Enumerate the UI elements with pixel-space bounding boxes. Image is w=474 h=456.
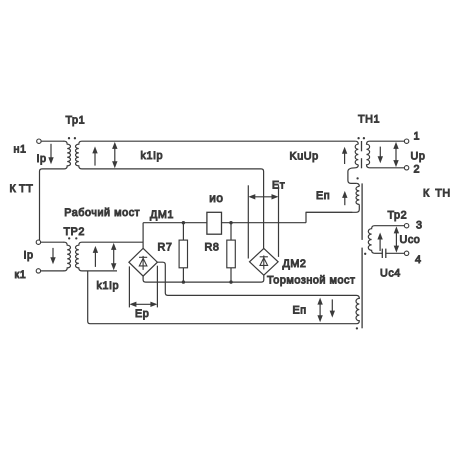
wire н1 to Тр1 primary [41, 140, 64, 142]
arrow Iр (ТР2 primary) [50, 248, 55, 264]
polarity dot Еп bottom [356, 327, 358, 329]
svg-text:Up: Up [411, 150, 426, 162]
wire к1 to ТР2 primary [41, 270, 65, 272]
ТН1 primary bottom lead [348, 165, 358, 184]
wire terminal to ТР2 primary [41, 241, 65, 243]
transformer ТР2 primary winding [64, 242, 71, 271]
wire R8 top [230, 223, 232, 240]
svg-text:ТН1: ТН1 [358, 113, 380, 125]
svg-text:R7: R7 [158, 242, 173, 254]
capacitor Uc4 plate right [385, 249, 387, 258]
polarity dot Тр1 secondary [74, 137, 76, 139]
wire R8 bottom [230, 268, 232, 282]
svg-text:KuUp: KuUp [290, 150, 319, 162]
svg-text:k1Iр: k1Iр [141, 150, 164, 162]
wire Тр2 top to terminal 3 [375, 225, 404, 227]
Еп middle bottom lead [306, 204, 359, 212]
terminal н1 [37, 139, 41, 143]
wire ТН1 secondary bottom to terminal 2 [370, 167, 404, 169]
double arrow Uco [394, 226, 399, 252]
svg-text:4: 4 [415, 254, 422, 266]
svg-text:Еп: Еп [293, 305, 307, 317]
diode inside ДМ2 [260, 255, 268, 269]
wire Тр1 secondary bottom to ДМ2 top [83, 169, 264, 249]
svg-text:2: 2 [414, 163, 421, 175]
svg-text:Ет: Ет [272, 180, 285, 192]
capacitor Uc4 plate left [381, 249, 383, 258]
resistor R7 [179, 240, 187, 268]
svg-text:к1: к1 [15, 269, 27, 281]
svg-text:Uc4: Uc4 [380, 268, 401, 280]
bridge ДМ1 diamond [129, 248, 158, 276]
polarity dot ТР2 secondary [75, 237, 77, 239]
double arrow k1Iр (ТР2) [111, 243, 116, 270]
bridge ДМ2 diamond [250, 248, 279, 275]
svg-text:н1: н1 [14, 144, 27, 156]
polarity dot ТР2 primary [68, 237, 70, 239]
svg-text:Iр: Iр [24, 250, 34, 262]
arrow KuUp up [342, 147, 347, 164]
wire bottom bus [143, 275, 264, 282]
transformer Тр1 primary winding [42, 141, 71, 169]
svg-text:Тормозной мост: Тормозной мост [267, 274, 356, 286]
winding Тр2 right [368, 226, 375, 254]
winding Еп bottom [354, 295, 360, 323]
node R8 top [229, 221, 232, 224]
polarity dot ТН1 primary [357, 137, 359, 139]
transformer Тр1 secondary winding [76, 141, 83, 169]
double arrow k1Iр (Тр1) [112, 142, 117, 168]
polarity dot Тр2 right [364, 253, 366, 255]
wire top bus left [143, 222, 207, 224]
arrow Еп bottom down [330, 299, 335, 317]
polarity dot ТН1 secondary [363, 137, 365, 139]
wire ТР2 secondary top to ДМ1 [83, 241, 144, 243]
wire Тр2 bottom to capacitor [375, 252, 382, 254]
node R7 top [182, 221, 185, 224]
dimension line Ер right [156, 266, 158, 308]
core column upper segment [361, 183, 363, 240]
terminal ТР2 top [36, 240, 40, 244]
svg-text:К ТТ: К ТТ [10, 183, 34, 195]
svg-text:Тр2: Тр2 [388, 210, 408, 222]
double arrow Ер [129, 302, 157, 307]
wire ТР2 bottom down to bottom bus [88, 271, 354, 324]
terminal 4 [404, 251, 408, 255]
wire ДМ1 top corner to bus [142, 223, 144, 249]
dimension line Ер left [128, 266, 130, 307]
transformer ТН1 primary winding [355, 144, 358, 165]
wire capacitor to terminal 4 [386, 252, 405, 254]
svg-text:Iр: Iр [37, 153, 47, 165]
dimension line Ет left [247, 185, 249, 258]
ТН1 primary top corner [355, 141, 358, 144]
double arrow Еп bottom [317, 298, 322, 323]
winding Еп middle [356, 186, 359, 204]
transformer ТР2 secondary winding [76, 242, 83, 271]
wire top bus right [222, 222, 307, 224]
svg-text:Ер: Ер [135, 308, 149, 320]
svg-text:1: 1 [414, 130, 421, 142]
polarity dot Тр1 primary [68, 137, 70, 139]
polarity dot Еп middle [356, 177, 358, 179]
svg-text:Рабочий мост: Рабочий мост [64, 207, 140, 219]
svg-text:ТР2: ТР2 [64, 226, 85, 238]
terminal 1 [404, 139, 408, 143]
svg-text:k1Iр: k1Iр [97, 280, 120, 292]
wire Тр1 primary bottom down to ТР2 [40, 169, 43, 240]
wire R7 top [182, 223, 184, 240]
wire R7 bottom [182, 268, 184, 282]
svg-text:3: 3 [416, 220, 423, 232]
arrow Еп middle up [342, 191, 347, 205]
resistor R8 [227, 240, 236, 268]
arrow Up down [378, 147, 383, 164]
core ТН1 dash top [361, 141, 363, 151]
wire ТН1 secondary top to terminal 1 [370, 140, 404, 142]
double arrow Up [393, 142, 398, 167]
wire Тр1 secondary top to ТН1 [83, 140, 356, 142]
svg-text:ДМ1: ДМ1 [150, 209, 174, 221]
transformer ТН1 secondary winding [367, 141, 371, 168]
arrow Тр2 right up [377, 233, 382, 252]
core column lower segment [361, 248, 363, 329]
svg-text:R8: R8 [205, 242, 220, 254]
svg-text:Uco: Uco [400, 234, 421, 246]
node R8 bottom [229, 280, 232, 283]
dimension line Ет right [278, 185, 280, 257]
svg-text:ДМ2: ДМ2 [283, 258, 307, 270]
terminal к1 [36, 269, 40, 273]
svg-text:ио: ио [209, 191, 223, 205]
core ТН1 dash bottom [361, 158, 363, 168]
wire bus step up [306, 212, 352, 222]
arrow Iр (primary current) [48, 144, 53, 164]
arrow k1Iр up (Тр1 secondary) [92, 146, 97, 165]
diode inside ДМ1 [139, 256, 147, 270]
wire ТР2 secondary bottom stub [83, 270, 118, 272]
terminal 2 [404, 166, 408, 170]
arrow k1Iр up (ТР2 secondary) [93, 246, 98, 267]
double arrow Ет [248, 194, 278, 199]
relay box ио [207, 212, 222, 234]
node R7 bottom [182, 280, 185, 283]
terminal 3 [404, 224, 408, 228]
svg-text:Тр1: Тр1 [66, 115, 86, 127]
svg-text:К ТН: К ТН [423, 188, 451, 200]
wire ДМ1 right corner to lower winding [157, 262, 353, 295]
svg-text:Еп: Еп [316, 190, 330, 202]
Еп middle top corner [356, 183, 359, 186]
